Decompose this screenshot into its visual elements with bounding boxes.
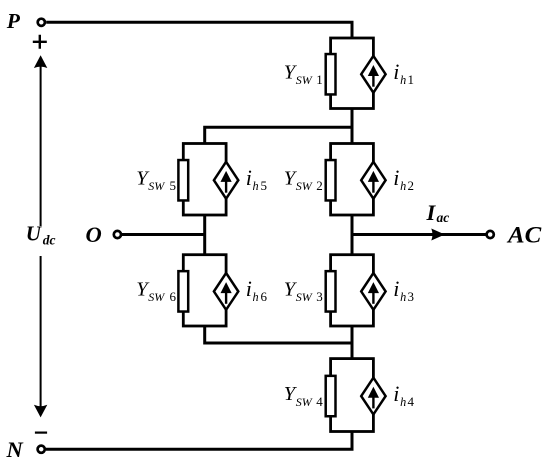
svg-text:1: 1 bbox=[316, 72, 323, 87]
svg-text:6: 6 bbox=[261, 289, 268, 304]
svg-text:i: i bbox=[246, 276, 252, 301]
svg-text:O: O bbox=[86, 222, 102, 247]
svg-text:SW: SW bbox=[296, 290, 313, 304]
svg-text:i: i bbox=[393, 381, 399, 406]
svg-text:h: h bbox=[253, 290, 259, 304]
svg-text:SW: SW bbox=[296, 73, 313, 87]
svg-text:h: h bbox=[400, 179, 406, 193]
svg-text:SW: SW bbox=[148, 290, 165, 304]
svg-text:i: i bbox=[393, 59, 399, 84]
svg-text:ac: ac bbox=[437, 210, 450, 225]
svg-text:AC: AC bbox=[506, 223, 542, 248]
svg-text:P: P bbox=[6, 9, 21, 33]
svg-text:h: h bbox=[400, 395, 406, 409]
svg-text:SW: SW bbox=[296, 395, 313, 409]
svg-text:U: U bbox=[26, 222, 43, 246]
svg-text:5: 5 bbox=[261, 178, 268, 193]
svg-text:N: N bbox=[5, 437, 23, 462]
svg-text:3: 3 bbox=[316, 289, 323, 304]
svg-text:1: 1 bbox=[408, 72, 415, 87]
svg-text:6: 6 bbox=[170, 289, 177, 304]
svg-text:i: i bbox=[246, 165, 252, 190]
svg-text:4: 4 bbox=[408, 394, 415, 409]
svg-text:i: i bbox=[393, 276, 399, 301]
svg-text:2: 2 bbox=[408, 178, 415, 193]
svg-text:h: h bbox=[400, 290, 406, 304]
svg-text:I: I bbox=[426, 200, 437, 225]
svg-text:5: 5 bbox=[170, 178, 177, 193]
svg-text:i: i bbox=[393, 165, 399, 190]
svg-text:SW: SW bbox=[148, 179, 165, 193]
svg-text:3: 3 bbox=[408, 289, 415, 304]
svg-text:h: h bbox=[400, 73, 406, 87]
svg-text:h: h bbox=[253, 179, 259, 193]
svg-text:SW: SW bbox=[296, 179, 313, 193]
svg-text:dc: dc bbox=[43, 232, 56, 247]
svg-text:2: 2 bbox=[316, 178, 323, 193]
svg-text:4: 4 bbox=[316, 394, 323, 409]
